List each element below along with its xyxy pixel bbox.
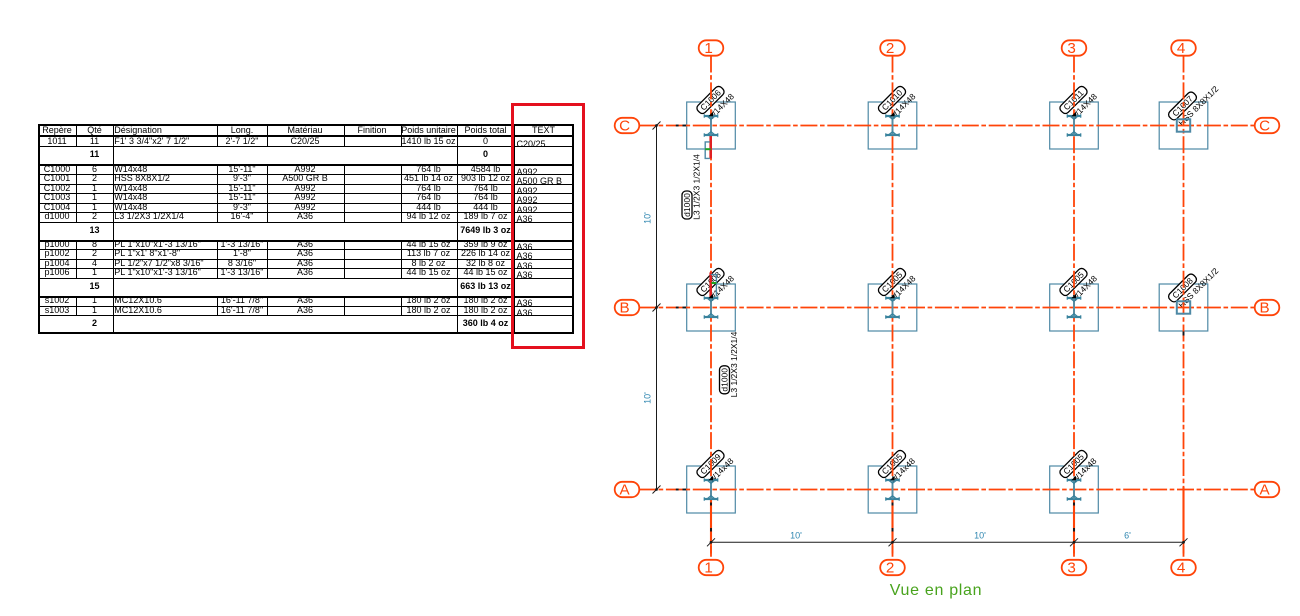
clip angle bracket below column C1 [705, 142, 710, 159]
left vertical dimension line [656, 126, 658, 490]
svg-text:3: 3 [1067, 559, 1075, 576]
black dash mark on grid 4 below B4 [1183, 332, 1185, 336]
grid line 3 solid segment below column A3 [1073, 500, 1075, 542]
svg-text:C: C [619, 117, 630, 134]
black dash marks on row line y=125.5 [676, 125, 679, 127]
column I-beam symbol C1008 [704, 296, 717, 318]
grid bubble B at (627,307.5) [615, 300, 640, 315]
column footprint square B3 [1050, 284, 1099, 331]
grid bubble 2 at (892.5,48) [880, 40, 905, 55]
red vertical brace segment above column B1 [709, 272, 712, 297]
table row p1006 [44, 268, 69, 277]
svg-text:10': 10' [974, 531, 986, 541]
svg-text:B: B [1260, 299, 1270, 316]
table row p1002 [44, 249, 69, 258]
dimension tick at x=1074 [1070, 538, 1078, 546]
part label C1008 HSS 8X8X1/2 [1167, 258, 1221, 312]
black dash marks on column line x=892.5 below row A [892, 503, 894, 506]
column I-beam symbol C1005 [886, 296, 899, 318]
green angle mark on B1 square top edge [712, 282, 717, 284]
table column lines [76, 124, 77, 147]
grid line dash above bottom bubble x=1183.5 [1183, 546, 1185, 554]
bottom horizontal dimension line [711, 541, 1184, 543]
red vertical brace segment below column C1 [709, 136, 712, 159]
table row C1004 [44, 203, 71, 212]
svg-text:B: B [620, 299, 630, 316]
part label C1008 W14X48 [695, 265, 736, 306]
grid line 1 (vertical) [710, 56, 712, 560]
svg-text:4: 4 [1177, 559, 1185, 576]
part label d1000 L3 1/2X3 1/2X1/4 (B-A segment) [720, 331, 739, 397]
table subtotal row (11) [90, 150, 100, 159]
grid bubble 1 at (711.0,48) [699, 40, 724, 55]
green angle mark on C1 square bottom edge [705, 148, 711, 150]
grid line 2 solid segment below column A2 [891, 500, 893, 542]
table row C1002 [44, 184, 71, 193]
grid line A (horizontal) [639, 489, 1255, 491]
column HSS tube symbol C1008 [1177, 301, 1190, 313]
table header separator [38, 135, 574, 137]
table row C1001 [44, 174, 71, 183]
grid bubble C at (627,125.5) [615, 118, 640, 133]
svg-text:1: 1 [704, 559, 712, 576]
grid line 3 (vertical) [1073, 56, 1075, 560]
grid bubble 4 at (1183.5,567.5) [1171, 560, 1196, 575]
column I-beam symbol C1010 [886, 114, 899, 136]
part label C1005 W14X48 [1058, 265, 1099, 306]
column footprint square A3 [1050, 466, 1099, 513]
svg-text:6': 6' [1124, 531, 1131, 541]
black dash marks on column line x=711.0 below row A [710, 503, 712, 506]
column I-beam symbol C1005 [886, 478, 899, 500]
grid bubble 4 at (1183.5,48) [1171, 40, 1196, 55]
column footprint square C4 [1159, 102, 1208, 149]
column footprint square C3 [1050, 102, 1099, 149]
part label d1000 L3 1/2X3 1/2X1/4 (C-B segment) [682, 154, 701, 220]
grid bubble 2 at (892.5,567.5) [880, 560, 905, 575]
column I-beam symbol C1011 [1067, 114, 1080, 136]
svg-text:C: C [1259, 117, 1270, 134]
grid line 2 (vertical) [892, 56, 894, 560]
table row 1011 [47, 137, 66, 146]
column footprint square B1 [687, 284, 736, 331]
table row lines [38, 146, 574, 147]
part label C1007 HSS 8X8X1/2 [1167, 76, 1221, 130]
column HSS tube symbol C1007 [1177, 119, 1190, 131]
black dash marks on row line y=489.5 [676, 489, 679, 491]
column footprint square B4 [1159, 284, 1208, 331]
part label C1005 W14x48 [1058, 447, 1098, 487]
grid line dash above bottom bubble x=892.5 [892, 546, 894, 554]
svg-text:10': 10' [643, 212, 653, 224]
column footprint square C2 [868, 102, 917, 149]
svg-text:4: 4 [1177, 40, 1185, 57]
grid bubble A at (627,489.5) [615, 482, 640, 497]
dimension tick at y=489.5 [653, 486, 661, 494]
dimension tick at y=307.5 [653, 304, 661, 312]
dimension tick at x=711 [707, 538, 715, 546]
black dash marks on column line x=1074.0 below row A [1073, 503, 1075, 506]
column I-beam symbol C1005 [1067, 296, 1080, 318]
svg-text:L3 1/2X3 1/2X1/4: L3 1/2X3 1/2X1/4 [691, 154, 701, 220]
grid line 1 solid segment below column A1 [710, 500, 712, 542]
grid bubble 3 at (1074.0,567.5) [1062, 560, 1087, 575]
svg-text:10': 10' [643, 392, 653, 404]
svg-text:10': 10' [790, 531, 802, 541]
table header row [42, 126, 72, 135]
svg-text:3: 3 [1067, 40, 1075, 57]
table subtotal row (2) [92, 319, 97, 328]
column footprint square B2 [868, 284, 917, 331]
column I-beam symbol C1005 [1067, 478, 1080, 500]
part label C1009 W14x48 [695, 447, 735, 487]
grid line B (horizontal) [639, 307, 1255, 309]
grid line 4 solid segment above dimension line [1182, 487, 1184, 542]
grid bubble 3 at (1074.0,48) [1062, 40, 1087, 55]
svg-text:2: 2 [886, 40, 894, 57]
red highlight rectangle over TEXT column [511, 103, 585, 349]
table outer border [38, 124, 574, 335]
grid bubble C at (1267,125.5) [1255, 118, 1280, 133]
table row d1000 [44, 212, 69, 221]
clip angle bracket above column B1 [711, 275, 717, 297]
part label C1005 W14x48 [877, 447, 917, 487]
grid line dash above bottom bubble x=711.0 [710, 546, 712, 554]
table row p1004 [44, 259, 69, 268]
view title: Vue en plan [890, 582, 983, 600]
grid line 4 (vertical) [1183, 56, 1185, 560]
part label C1011 W14X48 [1058, 83, 1099, 124]
part label C1010 W14X48 [877, 83, 918, 124]
table row C1003 [44, 193, 71, 202]
column I-beam symbol C1006 [704, 114, 717, 136]
table subtotal row (15) [89, 282, 99, 291]
black dash marks on row line y=307.5 [676, 307, 679, 309]
grid bubble 1 at (711.0,567.5) [699, 560, 724, 575]
column footprint square A2 [868, 466, 917, 513]
column footprint square C1 [687, 102, 736, 149]
dimension tick at x=892.5 [889, 538, 897, 546]
grid bubble B at (1267,307.5) [1255, 300, 1280, 315]
table row s1002 [45, 296, 70, 305]
grid line C (horizontal) [639, 125, 1255, 127]
svg-text:A: A [620, 481, 631, 498]
svg-text:2: 2 [886, 559, 894, 576]
table subtotal row (13) [89, 226, 99, 235]
dimension tick at y=125.5 [653, 122, 661, 130]
svg-text:A: A [1260, 481, 1271, 498]
dimension tick at x=1183.5 [1180, 538, 1188, 546]
svg-text:1: 1 [704, 40, 712, 57]
grid bubble A at (1267,489.5) [1255, 482, 1280, 497]
column I-beam symbol C1009 [704, 478, 717, 500]
table row p1000 [44, 240, 69, 249]
svg-text:L3 1/2X3 1/2X1/4: L3 1/2X3 1/2X1/4 [729, 331, 739, 397]
grid line dash above bottom bubble x=1074.0 [1073, 546, 1075, 554]
part label C1005 W14X48 [877, 265, 918, 306]
part label C1006 W14X48 [695, 83, 736, 124]
table row C1000 [44, 165, 71, 174]
column footprint square A1 [687, 466, 736, 513]
table row s1003 [45, 306, 70, 315]
